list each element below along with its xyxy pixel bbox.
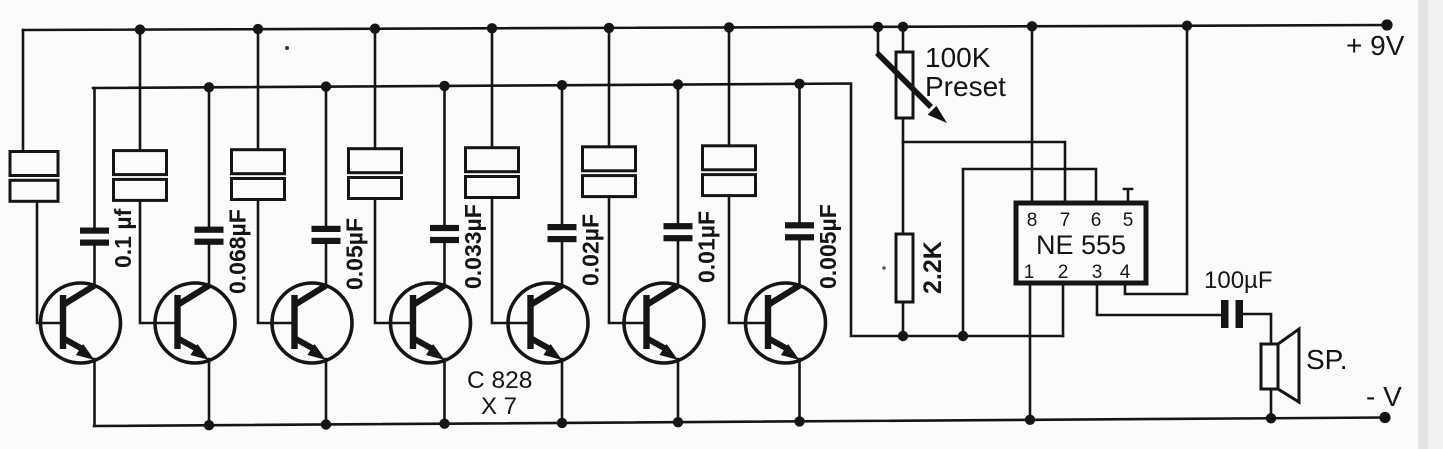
wire emitter of Q2 to ground rail: [208, 359, 211, 425]
svg-text:4: 4: [1120, 262, 1131, 283]
wire C2 to collector of Q2: [208, 245, 211, 286]
node top rail junction stage 2: [135, 24, 145, 34]
wire -V bottom ground rail: [94, 418, 1385, 427]
touch pad key P6: [583, 147, 636, 171]
wire collector-capacitor common bus (second rail): [93, 84, 1063, 337]
wire pin 1 to ground rail: [1029, 283, 1032, 420]
node top rail junction pin 4 riser: [1182, 21, 1192, 31]
wire touch pad 3 to base of Q3: [258, 200, 272, 324]
node ground rail junction stage 2: [204, 420, 214, 430]
touch pad key P5: [466, 148, 519, 172]
wire emitter of Q5 to ground rail: [561, 359, 564, 423]
node ground rail junction speaker: [1266, 413, 1276, 423]
wire touch pad 7 to base of Q7: [729, 196, 746, 323]
wire C3 to collector of Q3: [325, 244, 328, 286]
node top rail junction VR1 top: [898, 22, 908, 32]
node ground rail junction stage 3: [321, 419, 331, 429]
wire C7 to collector of Q7: [798, 240, 801, 286]
resistor VR1 100K preset: [877, 52, 947, 123]
touch pad key P4: [349, 149, 402, 173]
wire touch pad 6 to base of Q6: [609, 197, 624, 323]
op-amp/timer U1 NE 555: [1016, 203, 1146, 283]
capacitor C4 (0.033µF): [430, 225, 459, 231]
transistor Q6 (C828 NPN): [624, 283, 704, 363]
wire touch pad 1 to base of Q1: [37, 201, 41, 323]
node top rail junction stage 3: [253, 24, 263, 34]
node top rail junction pin 8: [1027, 21, 1037, 31]
touch pad key P7: [703, 146, 756, 170]
svg-text:0.01µF: 0.01µF: [694, 211, 720, 283]
touch pad key P3: [232, 150, 285, 174]
node second rail junction stage 5: [557, 80, 567, 90]
svg-text:+ 9V: + 9V: [1346, 30, 1405, 61]
wire touch pad 4 to base of Q4: [375, 199, 391, 324]
node top rail junction stage 4: [370, 24, 380, 34]
wire +9V top supply rail: [23, 25, 1387, 30]
transistor Q4 (C828 NPN): [391, 283, 471, 363]
wire touch pad 2 to base of Q2: [140, 200, 155, 323]
wire emitter of Q4 to ground rail: [443, 359, 446, 424]
wire pin 3 output to C8: [1097, 283, 1221, 315]
svg-text:Preset: Preset: [925, 71, 1006, 102]
wire emitter of Q3 to ground rail: [325, 359, 328, 425]
node ground rail junction stage 6: [673, 417, 683, 427]
speaker SP: [1261, 329, 1299, 402]
svg-text:NE 555: NE 555: [1036, 230, 1126, 260]
wire C8 to speaker: [1243, 314, 1271, 344]
wire pin 8 to +9V rail: [1031, 26, 1034, 203]
node top rail junction stage 7: [724, 22, 734, 32]
wire emitter of Q1 to ground rail: [93, 359, 96, 426]
svg-text:8: 8: [1027, 210, 1038, 231]
scan edge shading (right margin): [1418, 0, 1428, 449]
wire top rail to touch pad 3: [257, 29, 260, 150]
svg-text:3: 3: [1092, 262, 1103, 283]
scan speckle marks (decorative): [285, 46, 289, 50]
wire top rail to touch pad 6: [608, 28, 611, 147]
wire touch pad 5 to base of Q5: [492, 198, 508, 324]
svg-text:0.033µF: 0.033µF: [460, 204, 486, 289]
wire C6 to collector of Q6: [677, 241, 680, 286]
node ground rail junction stage 7: [794, 416, 804, 426]
capacitor C8 100uF: [1221, 300, 1229, 328]
wire VR1 to R1 (2.2K): [902, 118, 905, 234]
svg-text:100K: 100K: [925, 42, 991, 73]
node top rail junction stage 5: [487, 23, 497, 33]
node junction pin6 riser / timing bus: [958, 331, 968, 341]
touch pad key P2: [114, 151, 167, 175]
svg-text:100µF: 100µF: [1204, 267, 1273, 294]
wire top rail to touch pad 1: [22, 30, 25, 152]
wire C5 to collector of Q5: [561, 242, 564, 286]
svg-text:5: 5: [1123, 210, 1134, 231]
wire pin 6 to timing bus: [963, 169, 1096, 336]
transistor Q7 (C828 NPN): [746, 283, 826, 363]
node second rail junction stage 3: [321, 81, 331, 91]
svg-text:6: 6: [1091, 210, 1102, 231]
wire pin 4 reset to +9V rail: [1125, 26, 1187, 294]
wire top rail to touch pad 4: [374, 29, 377, 149]
wire second rail to capacitor C3: [325, 87, 328, 226]
wire top rail to VR1: [902, 27, 905, 52]
wire pin 2 to timing bus: [1062, 283, 1065, 336]
wire pin 7 to VR1/R1 junction: [903, 142, 1065, 203]
capacitor C5 (0.02µF): [548, 224, 577, 230]
transistor Q5 (C828 NPN): [508, 283, 588, 363]
svg-text:0.05µF: 0.05µF: [342, 218, 368, 290]
wire top rail to wiper of VR1: [877, 27, 880, 54]
wire emitter of Q7 to ground rail: [798, 359, 801, 421]
wire speaker to ground rail: [1270, 389, 1273, 418]
svg-text:X 7: X 7: [481, 393, 517, 420]
wire R1 to timing bus: [902, 302, 905, 336]
node second rail junction stage 4: [439, 81, 449, 91]
svg-text:0.1 µf: 0.1 µf: [110, 208, 136, 268]
svg-text:7: 7: [1060, 210, 1071, 231]
wire top rail to touch pad 2: [139, 30, 142, 151]
wire C4 to collector of Q4: [443, 243, 446, 286]
wire second rail to capacitor C1: [93, 88, 96, 228]
node second rail junction stage 6: [673, 79, 683, 89]
capacitor C7 (0.005µF): [785, 222, 814, 228]
node ground rail junction stage 4: [439, 419, 449, 429]
svg-text:SP.: SP.: [1306, 344, 1348, 375]
svg-text:2: 2: [1058, 262, 1069, 283]
node ground rail junction stage 5: [557, 418, 567, 428]
svg-text:C 828: C 828: [467, 367, 532, 394]
transistor Q2 (C828 NPN): [155, 283, 235, 363]
transistor Q3 (C828 NPN): [272, 283, 352, 363]
capacitor C2 (0.068µF): [195, 227, 224, 233]
svg-text:0.068µF: 0.068µF: [225, 209, 251, 294]
resistor R1 2.2K: [896, 234, 913, 302]
wire second rail to capacitor C7: [798, 84, 801, 222]
svg-text:1: 1: [1024, 262, 1035, 283]
transistor Q1 (C828 NPN): [41, 283, 121, 363]
wire second rail to capacitor C6: [677, 85, 680, 224]
node +9V terminal: [1381, 19, 1392, 30]
capacitor C6 (0.01µF): [664, 223, 693, 229]
capacitor C3 (0.05µF): [312, 226, 341, 232]
wire pin 5 open stub: [1124, 189, 1132, 203]
wire second rail to capacitor C2: [208, 87, 211, 226]
node second rail junction stage 2: [204, 82, 214, 92]
node junction R1 / timing bus: [898, 331, 908, 341]
svg-text:2.2K: 2.2K: [919, 241, 947, 294]
touch pad key P1: [10, 152, 58, 176]
node second rail junction stage 7: [794, 79, 804, 89]
wire emitter of Q6 to ground rail: [677, 359, 680, 422]
node -V terminal: [1379, 412, 1390, 423]
capacitor C1 (0.1 µf): [80, 228, 109, 234]
wire second rail to capacitor C4: [443, 86, 446, 225]
svg-text:0.02µF: 0.02µF: [578, 214, 604, 286]
wire top rail to touch pad 5: [491, 28, 494, 147]
node top rail junction wiper of VR1: [873, 22, 883, 32]
node top rail junction stage 6: [604, 23, 614, 33]
wire second rail to capacitor C5: [561, 85, 564, 224]
node ground rail junction pin 1: [1025, 415, 1035, 425]
svg-text:- V: - V: [1366, 381, 1402, 412]
wire C1 to collector of Q1: [93, 246, 96, 287]
wire top rail to touch pad 7: [728, 27, 731, 145]
svg-text:0.005µF: 0.005µF: [815, 204, 841, 289]
